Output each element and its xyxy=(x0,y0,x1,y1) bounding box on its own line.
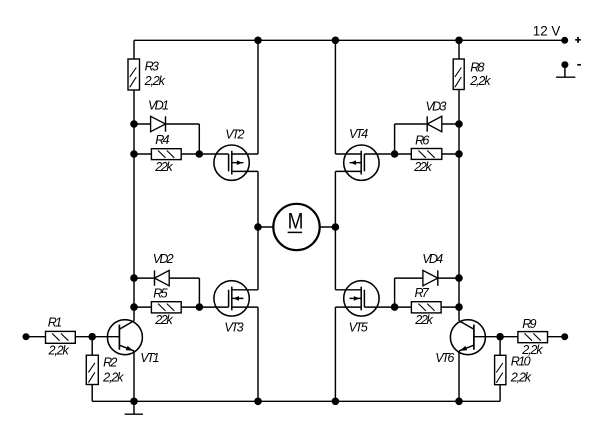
svg-text:2,2k: 2,2k xyxy=(102,370,124,384)
svg-text:VT2: VT2 xyxy=(225,128,244,142)
svg-text:2,2k: 2,2k xyxy=(469,74,491,88)
svg-text:R2: R2 xyxy=(103,356,117,370)
svg-text:22k: 22k xyxy=(154,160,173,174)
svg-text:2,2k: 2,2k xyxy=(48,344,70,358)
svg-text:R6: R6 xyxy=(415,133,429,147)
svg-text:VT5: VT5 xyxy=(349,321,369,335)
svg-text:2,2k: 2,2k xyxy=(510,370,532,384)
svg-text:VT3: VT3 xyxy=(224,321,243,335)
svg-text:12 V: 12 V xyxy=(533,24,561,39)
svg-text:VD4: VD4 xyxy=(422,252,443,266)
svg-text:R3: R3 xyxy=(145,60,159,74)
svg-text:VD3: VD3 xyxy=(426,100,447,114)
svg-text:R9: R9 xyxy=(522,317,536,331)
svg-text:VD1: VD1 xyxy=(148,99,169,113)
svg-text:VT1: VT1 xyxy=(140,351,159,365)
svg-text:R1: R1 xyxy=(48,316,62,330)
svg-text:2,2k: 2,2k xyxy=(144,74,166,88)
svg-text:VD2: VD2 xyxy=(153,252,174,266)
svg-text:VT4: VT4 xyxy=(349,127,368,141)
svg-text:R8: R8 xyxy=(470,60,484,74)
svg-text:R10: R10 xyxy=(511,355,531,369)
svg-text:M: M xyxy=(288,208,304,233)
svg-text:R7: R7 xyxy=(415,286,430,300)
svg-text:22k: 22k xyxy=(413,160,432,174)
svg-text:22k: 22k xyxy=(154,313,173,327)
svg-text:R4: R4 xyxy=(155,133,169,147)
svg-text:VT6: VT6 xyxy=(435,351,454,365)
svg-text:R5: R5 xyxy=(153,287,168,301)
svg-text:22k: 22k xyxy=(414,313,433,327)
